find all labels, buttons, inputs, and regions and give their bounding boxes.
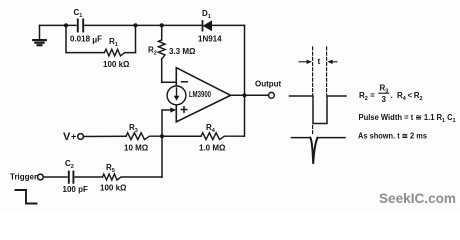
resistor R5 [103,174,163,180]
pulse dashed line right [326,47,328,95]
resistor R3 [126,133,162,140]
svg-text:R5: R5 [106,163,115,174]
resistor R4 [201,133,245,140]
svg-text:100 pF: 100 pF [63,185,88,194]
wire feedback vertical [244,25,246,136]
node B junction dot [133,23,137,27]
wire noninverting input riser [162,110,171,136]
V+ terminal circle [78,134,84,140]
wire V+ to R3 [83,135,126,137]
svg-text:0.018 μF: 0.018 μF [70,35,102,45]
wire node D to R4 [162,135,201,137]
svg-text:Pulse Width = t ≅ 1.1 R1 C1: Pulse Width = t ≅ 1.1 R1 C1 [359,113,456,124]
pulse waveform baseline and pulse [290,96,347,124]
svg-text:C2: C2 [65,159,74,170]
svg-text:t: t [318,56,321,66]
svg-text:3: 3 [382,95,387,104]
node A junction dot [64,23,68,27]
svg-text:R3: R3 [129,123,138,134]
svg-text:100 kΩ: 100 kΩ [100,184,127,193]
svg-text:100 kΩ: 100 kΩ [103,60,130,69]
wire R2 top lead [161,25,163,40]
svg-text:SeekIC.com: SeekIC.com [379,190,456,206]
resistor R1 [105,49,136,56]
svg-text:+: + [71,132,76,142]
wire C1 to node B [85,24,162,26]
svg-text:R2 =: R2 = [359,91,375,102]
op-amp current source symbol [167,86,186,105]
node C junction dot [160,23,164,27]
svg-text:3.3 MΩ: 3.3 MΩ [169,47,196,56]
ground [33,25,46,45]
pulse dashed line left [312,47,314,95]
capacitor C2 [69,172,74,183]
wire top rail ground to C1 [40,24,77,26]
noninverting input arrowhead [170,107,176,112]
svg-text:.: . [391,91,393,100]
svg-text:R1: R1 [109,37,118,48]
formula line 1: R2 = R3/3, R4 < R2 [359,84,423,104]
op-amp plus input sign [181,107,186,112]
op-amp minus input sign [182,81,188,83]
op-amp U1 LM3900 triangle [176,68,230,122]
t arrow right [327,60,337,64]
output terminal circle [269,92,275,98]
trigger spike waveform [292,138,346,164]
svg-text:R4: R4 [206,123,216,134]
diode D1 [203,21,212,31]
svg-text:1.0 MΩ: 1.0 MΩ [199,144,226,153]
wire R1 branch right leg [135,25,137,52]
svg-text:D1: D1 [202,9,211,20]
svg-text:LM3900: LM3900 [189,90,211,99]
svg-text:10 MΩ: 10 MΩ [124,144,149,153]
node D junction dot [160,134,164,138]
resistor R2 vertical [158,40,165,59]
capacitor C1 [78,20,83,32]
wire diode to top right corner [212,24,245,26]
pulse dashed line left lower [312,126,314,134]
output node junction dot [242,93,246,97]
svg-text:R4 < R2: R4 < R2 [397,91,423,102]
trigger step waveform [16,190,37,204]
wire R1 branch left leg [66,25,104,52]
wire op-amp output to terminal [231,94,269,96]
wire C2 to R5 [75,176,102,178]
svg-text:V: V [63,131,71,143]
t arrow left [299,60,312,64]
svg-text:Trigger: Trigger [10,173,37,182]
wire node D down to trigger row [161,136,163,177]
svg-text:R2: R2 [148,46,157,57]
trigger terminal circle [38,174,44,180]
svg-text:As shown. t ≅ 2 ms: As shown. t ≅ 2 ms [358,131,428,140]
wire R2 to inverting input [162,59,177,82]
wire node C to diode [162,24,202,26]
svg-text:1N914: 1N914 [198,34,222,43]
svg-text:C1: C1 [74,8,83,19]
wire trigger to C2 [43,176,67,178]
svg-text:Output: Output [255,80,282,89]
